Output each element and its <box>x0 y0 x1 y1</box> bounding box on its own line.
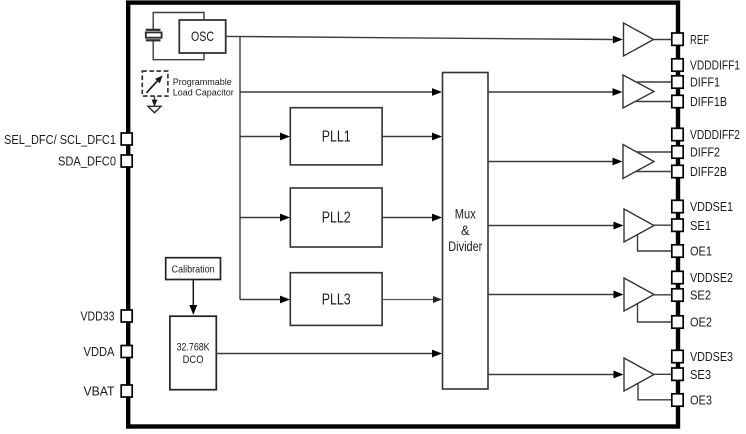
ground <box>148 106 161 113</box>
wire to ground <box>154 96 156 104</box>
wire SE1 buffer to SE1 pin <box>654 224 672 226</box>
pin DIFF1 <box>672 76 683 88</box>
pin SE3 <box>672 368 683 380</box>
svg-text:VDDSE3: VDDSE3 <box>690 349 733 364</box>
PLL1 block <box>290 108 382 165</box>
pin VDDSE1 <box>672 200 683 212</box>
wire REF buffer to pin <box>654 39 673 41</box>
pin VDDA <box>121 346 132 358</box>
wire Mux to DIFF2 buffer <box>488 161 613 163</box>
wire PLL3 output to Mux <box>382 299 434 301</box>
DIFF1 buffer <box>623 75 654 108</box>
svg-text:Divider: Divider <box>448 239 482 254</box>
svg-text:32.768K: 32.768K <box>177 342 211 354</box>
wire SE2 buffer to SE2 pin <box>654 294 672 296</box>
pin OE3 <box>672 394 683 406</box>
wire DCO output to Mux <box>216 353 433 355</box>
svg-text:Calibration: Calibration <box>172 264 215 276</box>
wire PLL1 output to Mux <box>382 136 433 138</box>
svg-text:SDA_DFC0: SDA_DFC0 <box>58 154 116 169</box>
wire Mux to SE3 buffer <box>488 374 614 376</box>
svg-text:DIFF2B: DIFF2B <box>690 164 727 179</box>
crystal Y1 body <box>146 32 162 37</box>
Calibration block <box>166 258 221 280</box>
wire Mux to SE2 buffer <box>488 294 614 296</box>
pin SE2 <box>672 289 683 301</box>
chip outline border <box>128 3 678 427</box>
wire trunk to PLL2 input <box>240 217 281 219</box>
wire: crystal loop top to OSC <box>153 13 204 31</box>
pin VDDDIFF2 <box>672 128 683 140</box>
svg-text:OE2: OE2 <box>690 315 712 330</box>
Mux & Divider block <box>443 73 489 390</box>
wire Mux to DIFF1 buffer <box>488 91 613 93</box>
SE3 buffer <box>624 358 654 391</box>
svg-text:PLL2: PLL2 <box>322 210 351 227</box>
pin VDDDIFF1 <box>672 59 683 71</box>
pin OE1 <box>672 245 683 257</box>
svg-text:PLL1: PLL1 <box>322 129 351 146</box>
svg-text:DIFF1B: DIFF1B <box>690 94 727 109</box>
wire OSC output to REF buffer <box>226 36 613 39</box>
svg-text:Mux: Mux <box>455 207 476 222</box>
svg-text:VDDA: VDDA <box>84 344 115 359</box>
svg-text:PLL3: PLL3 <box>322 292 351 309</box>
svg-text:REF: REF <box>690 32 709 47</box>
PLL3 block <box>290 273 382 326</box>
svg-text:Programmable: Programmable <box>173 77 232 87</box>
wire OE1 pin to SE1 buffer enable <box>638 234 673 251</box>
wire trunk to PLL3 input <box>240 299 281 301</box>
wire DIFF1 buffer to DIFF1B pin <box>635 101 672 103</box>
pin SEL_DFC/ SCL_DFC1 <box>121 133 132 145</box>
DIFF2 buffer <box>623 145 654 179</box>
crystal Y1 top plate <box>146 29 161 31</box>
pin DIFF1B <box>672 95 683 107</box>
svg-text:OSC: OSC <box>191 28 214 44</box>
wire Calibration to DCO <box>192 280 194 307</box>
pin DIFF2 <box>672 146 683 158</box>
pin VDDSE2 <box>672 271 683 283</box>
SE2 buffer <box>624 278 654 311</box>
svg-text:DCO: DCO <box>183 354 204 366</box>
wire DIFF2 buffer to DIFF2 pin <box>637 151 672 153</box>
programmable load capacitor arrow <box>147 81 158 93</box>
32.768K DCO block <box>170 316 216 390</box>
wire trunk to Mux input <box>240 91 433 93</box>
pin VDDSE3 <box>672 350 683 362</box>
pin REF <box>672 33 683 45</box>
pin DIFF2B <box>672 165 683 177</box>
svg-text:SEL_DFC/ SCL_DFC1: SEL_DFC/ SCL_DFC1 <box>4 132 116 147</box>
OSC block <box>179 20 225 53</box>
REF buffer <box>624 23 654 56</box>
wire: crystal loop bottom to OSC <box>153 40 204 59</box>
wire PLL2 output to Mux <box>382 217 433 219</box>
programmable load capacitor box <box>142 71 168 96</box>
svg-text:DIFF2: DIFF2 <box>690 145 720 160</box>
PLL2 block <box>290 188 382 247</box>
svg-text:VBAT: VBAT <box>84 384 115 399</box>
svg-text:VDDDIFF1: VDDDIFF1 <box>690 58 740 73</box>
svg-text:SE2: SE2 <box>690 288 711 303</box>
wire Mux to SE1 buffer <box>488 225 614 227</box>
svg-text:OE1: OE1 <box>690 244 712 259</box>
wire SE3 buffer to SE3 pin <box>654 373 672 375</box>
svg-text:SE3: SE3 <box>690 367 711 382</box>
wire DIFF2 buffer to DIFF2B pin <box>636 171 672 173</box>
pin VDD33 <box>121 310 132 322</box>
crystal Y1 bottom plate <box>146 39 161 41</box>
svg-text:SE1: SE1 <box>690 218 711 233</box>
pin VBAT <box>121 385 132 397</box>
pin OE2 <box>672 316 683 328</box>
svg-text:OE3: OE3 <box>690 393 712 408</box>
svg-text:VDD33: VDD33 <box>81 309 115 324</box>
wire DIFF1 buffer to DIFF1 pin <box>636 81 672 83</box>
wire trunk to PLL1 input <box>240 136 281 138</box>
svg-text:VDDSE2: VDDSE2 <box>690 270 733 285</box>
svg-text:VDDSE1: VDDSE1 <box>690 199 733 214</box>
pin SE1 <box>672 219 683 231</box>
wire OE2 pin to SE2 buffer enable <box>638 303 673 322</box>
svg-text:VDDDIFF2: VDDDIFF2 <box>690 127 740 142</box>
wire: vertical trunk from OSC output <box>239 36 241 299</box>
pin SDA_DFC0 <box>121 155 132 167</box>
svg-text:&: & <box>461 223 470 238</box>
svg-text:DIFF1: DIFF1 <box>690 75 720 90</box>
wire OE3 pin to SE3 buffer enable <box>638 383 672 400</box>
SE1 buffer <box>624 209 654 242</box>
svg-text:Load Capacitor: Load Capacitor <box>173 88 234 98</box>
